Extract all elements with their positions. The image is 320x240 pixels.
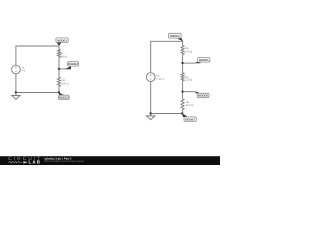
ground G2 [147, 116, 155, 120]
junction left bottom [58, 91, 60, 93]
wire: NODE6 stub [183, 91, 196, 93]
V1 polarity marks [15, 67, 17, 69]
svg-text:91.0 Ω: 91.0 Ω [186, 104, 194, 107]
wire: R4-junction segment [182, 55, 184, 73]
footer bar [0, 156, 220, 165]
svg-text:NODE6: NODE6 [198, 94, 208, 98]
resistor R5 [181, 73, 184, 81]
junction left ground [15, 91, 17, 93]
voltage source V1 [12, 65, 21, 74]
wire: left circuit R1-R2 middle segment [58, 58, 60, 78]
V2 polarity marks [150, 74, 152, 76]
flag NODE7 [184, 117, 196, 122]
svg-text:270 Ω: 270 Ω [185, 50, 192, 53]
flag NODE5 [198, 58, 210, 63]
junction left R1/R2 [58, 68, 60, 70]
pointer NODE5 [194, 60, 200, 63]
flag NODE1 [56, 38, 68, 43]
svg-text:7.56 V: 7.56 V [156, 78, 164, 81]
flag NODE3 [59, 95, 70, 99]
svg-text:510 Ω: 510 Ω [185, 79, 192, 82]
wire: ground G2 stub [150, 114, 152, 116]
wire: NODE5 stub [183, 62, 195, 64]
svg-text:7 V: 7 V [21, 69, 25, 72]
svg-text:LAB: LAB [29, 160, 42, 165]
wire: left circuit top rail [16, 46, 59, 65]
resistor R1 [58, 49, 61, 57]
logo arrow [23, 161, 28, 164]
logo resistor squiggle [8, 161, 22, 163]
pointer NODE6 [195, 92, 201, 94]
component labels [21, 47, 193, 107]
junction right R4/R5 [182, 62, 184, 64]
junction right ground [150, 112, 152, 114]
svg-text:100 Ω: 100 Ω [60, 55, 67, 58]
voltage source V2 [146, 73, 155, 82]
node flag boxes [56, 33, 210, 121]
resistor R4 [181, 46, 184, 55]
svg-text:NODE3: NODE3 [59, 96, 69, 100]
wire: ground G1 stub [15, 93, 17, 96]
node flag texts [57, 34, 209, 122]
flag NODE6 [197, 93, 209, 97]
resistor R2 [58, 77, 61, 86]
pointer NODE2 [65, 66, 71, 69]
junction dots [15, 62, 184, 114]
svg-text:560 Ω: 560 Ω [62, 82, 69, 85]
svg-text:NODE2: NODE2 [68, 62, 78, 66]
pointer NODE3 [59, 92, 65, 95]
pointer NODE7 [182, 113, 188, 117]
wire: left circuit lower-left rail [16, 74, 59, 93]
ground G1 [12, 96, 20, 100]
wire: NODE2 stub [59, 68, 67, 70]
svg-text:NODE7: NODE7 [185, 117, 195, 121]
pointer NODE1 [56, 42, 61, 46]
pointer NODE4 [176, 38, 182, 41]
flag NODE4 [168, 33, 181, 38]
resistor R6 [181, 99, 184, 110]
wire: left circuit R2 bottom lead [58, 86, 60, 92]
junction right R5/R6 [182, 91, 184, 93]
flag NODE2 [68, 62, 79, 66]
svg-text:http://circuitlab.com/c/542qwv: http://circuitlab.com/c/542qwvpgwde [44, 160, 85, 163]
svg-text:NODE5: NODE5 [199, 58, 209, 62]
junction right bottom [181, 112, 183, 114]
wire: right circuit lower-left rail [151, 82, 183, 114]
wire: R6 bottom lead [182, 110, 184, 114]
svg-text:NODE4: NODE4 [170, 34, 180, 38]
wire: R5-junction segment [182, 81, 184, 99]
wire: right circuit top rail [151, 41, 183, 73]
svg-text:NODE1: NODE1 [57, 38, 67, 42]
node flag pointers [56, 38, 201, 117]
